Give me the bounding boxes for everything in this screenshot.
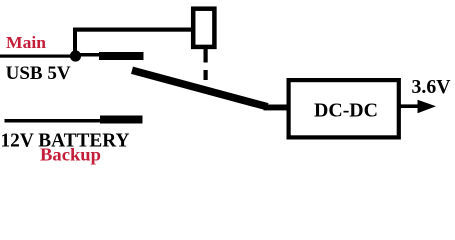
switch S1 fixed contact: USB terminal (thin lead) bbox=[79, 53, 101, 57]
svg-text:DC-DC: DC-DC bbox=[314, 101, 378, 122]
switch S1 fixed contact: USB terminal (thick bar) bbox=[99, 52, 144, 60]
node A: junction dot bbox=[70, 50, 81, 61]
svg-text:Backup: Backup bbox=[40, 144, 101, 164]
svg-text:3.6V: 3.6V bbox=[412, 76, 452, 98]
relay coil K1 (rectangle) bbox=[193, 9, 214, 47]
wire W2b: junction to relay coil (horizontal top) bbox=[73, 28, 193, 32]
wire W1: USB 5V main input rail bbox=[0, 55, 76, 58]
wire W2a: junction up to relay coil (vertical) bbox=[73, 28, 77, 57]
switch S1 blade (moving contact) bbox=[132, 70, 268, 107]
wire W4: output line with arrowhead bbox=[400, 104, 421, 108]
switch S1 fixed contact: battery terminal (thick bar) bbox=[100, 116, 143, 124]
dashed mechanical link to switch blade bbox=[204, 70, 208, 80]
switch S1 fixed contact: battery terminal (thin lead) bbox=[5, 119, 102, 123]
wire W3: switch pole to DC-DC input bbox=[264, 105, 289, 111]
wire: coil lead stub bbox=[204, 49, 208, 63]
svg-text:Main: Main bbox=[6, 33, 47, 52]
DC-DC converter U1 (box) bbox=[289, 80, 399, 137]
svg-text:USB 5V: USB 5V bbox=[6, 63, 71, 84]
arrowhead of output bbox=[418, 100, 437, 113]
